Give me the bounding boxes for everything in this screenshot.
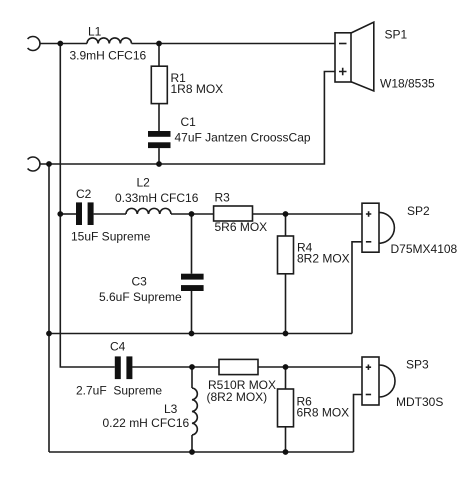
junction node wire6/L3	[189, 449, 195, 455]
wire: bottom return wire6	[49, 451, 354, 453]
SP1 minus pin	[339, 43, 347, 45]
svg-text:47uF Jantzen CroossCap: 47uF Jantzen CroossCap	[175, 131, 311, 145]
capacitor C1 plates	[148, 131, 171, 137]
svg-text:SP1: SP1	[385, 28, 408, 42]
wire: wire5 node to L3 top	[191, 367, 193, 388]
junction node wire5/R6	[283, 364, 289, 370]
svg-text:1R8 MOX: 1R8 MOX	[171, 82, 224, 96]
wire: mid return wire4	[49, 333, 352, 335]
svg-text:5R6 MOX: 5R6 MOX	[215, 220, 268, 234]
svg-text:C2: C2	[76, 187, 92, 201]
svg-text:0.22 mH CFC16: 0.22 mH CFC16	[103, 416, 190, 430]
resistor R5	[219, 359, 258, 374]
svg-text:2.7uF Supreme: 2.7uF Supreme	[76, 384, 162, 398]
wire: C2 to L2	[94, 213, 126, 215]
svg-text:8R2 MOX: 8R2 MOX	[297, 252, 350, 266]
wire: node to R4 top	[285, 214, 287, 236]
SP3 minus pin	[366, 394, 371, 396]
resistor R4	[278, 236, 294, 274]
wire: R4 bottom to wire4	[285, 274, 287, 334]
junction node wire1/R1	[156, 41, 162, 47]
SP2 plus pin	[366, 211, 371, 216]
input terminal 2	[28, 157, 40, 171]
junction node wire6/R6	[283, 449, 289, 455]
junction node wire2/C1	[156, 161, 162, 167]
wire: SP3 minus riser	[354, 395, 363, 453]
svg-text:MDT30S: MDT30S	[396, 395, 443, 409]
speaker SP3 dome	[379, 365, 395, 397]
SP2 minus pin	[366, 241, 371, 243]
inductor L2	[126, 208, 171, 214]
junction node wire3/C3	[189, 211, 195, 217]
svg-text:C3: C3	[132, 275, 148, 289]
resistor R6	[278, 389, 294, 427]
wire: wire3 C2 feed	[60, 213, 76, 215]
speaker SP2 dome	[379, 212, 394, 243]
capacitor C4 plates	[115, 356, 121, 379]
svg-text:L1: L1	[88, 25, 102, 39]
svg-text:W18/8535: W18/8535	[380, 77, 435, 91]
svg-text:15uF Supreme: 15uF Supreme	[71, 230, 151, 244]
wire: + feed rail down to C4	[60, 44, 115, 368]
SP3 plus pin	[366, 365, 371, 370]
junction node wire5/L3	[189, 364, 195, 370]
inductor L1	[87, 38, 131, 44]
svg-text:D75MX4108: D75MX4108	[391, 242, 458, 256]
wire: input1 to L1	[40, 43, 87, 45]
wire: input2 rail to SP1 plus	[40, 72, 335, 165]
wire: L1 to SP1 minus	[132, 43, 336, 45]
wire: - return rail	[48, 164, 50, 452]
svg-text:R3: R3	[215, 191, 231, 205]
svg-text:L3: L3	[164, 402, 178, 416]
junction node wire4/R4	[283, 331, 289, 337]
svg-text:SP2: SP2	[407, 204, 430, 218]
capacitor C2 plates	[76, 202, 82, 225]
junction node wire4/-rail	[46, 331, 52, 337]
wire: R3 to SP2 plus	[253, 213, 363, 215]
svg-text:0.33mH CFC16: 0.33mH CFC16	[115, 191, 199, 205]
speaker SP1 body	[335, 33, 351, 82]
wire: node W to R1	[158, 44, 160, 67]
wire: R5 to SP3 plus	[258, 366, 362, 368]
svg-text:C4: C4	[110, 340, 126, 354]
wire: C1 to wire 2	[158, 148, 160, 164]
junction node wire3/+rail	[57, 211, 63, 217]
junction node wire2/-rail	[46, 161, 52, 167]
svg-text:SP3: SP3	[406, 358, 429, 372]
resistor R3	[214, 206, 253, 221]
wire: L2 to R3	[171, 213, 214, 215]
resistor R1	[151, 66, 167, 103]
wire: R1 to C1	[158, 104, 160, 131]
wire: SP2 minus riser	[352, 242, 362, 334]
speaker SP2 body	[362, 203, 379, 252]
svg-text:6R8 MOX: 6R8 MOX	[297, 406, 350, 420]
wire: R6 bottom to wire6	[285, 427, 287, 452]
speaker SP1 cone	[351, 22, 374, 91]
junction node wire4/C3	[189, 331, 195, 337]
svg-text:5.6uF Supreme: 5.6uF Supreme	[99, 290, 182, 304]
capacitor C4 wires are on rail; wire: C4 to R5	[132, 366, 219, 368]
svg-text:(8R2 MOX): (8R2 MOX)	[207, 390, 268, 404]
junction node wire3/R4	[283, 211, 289, 217]
wire: node to C3 top	[191, 214, 193, 274]
SP1 plus pin	[339, 68, 347, 75]
input terminal 1	[28, 37, 40, 51]
capacitor C3 plates	[181, 274, 204, 280]
svg-text:3.9mH CFC16: 3.9mH CFC16	[70, 49, 147, 63]
inductor L3	[192, 388, 197, 435]
wire: L3 bottom to wire6	[191, 435, 193, 452]
svg-text:L2: L2	[137, 176, 151, 190]
wire: node to R6 top	[285, 367, 287, 389]
svg-text:C1: C1	[181, 115, 197, 129]
speaker SP3 body	[362, 357, 379, 405]
junction node on wire1 at +rail	[57, 41, 63, 47]
wire: C3 bottom to wire4	[191, 291, 193, 334]
